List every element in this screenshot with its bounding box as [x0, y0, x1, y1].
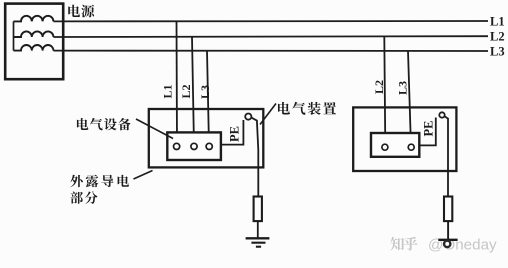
- PE wire from device 2 to terminal: [419, 118, 436, 146]
- terminal 3 (L3): [206, 143, 212, 149]
- wire drop L3 to device 2: [408, 51, 411, 147]
- wire bus L1: [53, 20, 488, 22]
- svg-text:L3: L3: [198, 85, 212, 99]
- label 部分 line 2: [70, 191, 83, 203]
- wire drop L2 to device 1: [192, 37, 194, 146]
- wire drop L1 to device 1: [176, 21, 179, 146]
- label 电气装置 (electrical installation): [278, 102, 290, 115]
- watermark 知乎: [390, 237, 404, 251]
- leader 外露导电部分: [134, 171, 153, 180]
- svg-text:PE: PE: [228, 126, 242, 142]
- terminal 2 (L2): [191, 143, 197, 149]
- svg-text:L2: L2: [372, 80, 386, 94]
- svg-text:L2: L2: [179, 84, 193, 98]
- svg-text:L1: L1: [490, 15, 505, 29]
- PE earthing conductor 1: [252, 118, 259, 197]
- leader 电气装置: [260, 104, 276, 125]
- terminal 2 (L3): [408, 144, 414, 150]
- electrical installation enclosure 1: [149, 109, 263, 167]
- svg-text:L3: L3: [396, 81, 410, 95]
- ground bar 2: [438, 239, 457, 241]
- PE terminal circle 2: [439, 112, 444, 117]
- PE terminal circle 1: [245, 114, 251, 120]
- device (电气设备) inner box 1: [167, 132, 221, 160]
- svg-text:PE: PE: [422, 121, 436, 137]
- terminal 1 (L2): [382, 144, 388, 150]
- earth resistance (electrode) 2: [444, 197, 452, 222]
- leader 电气设备: [136, 119, 173, 139]
- winding W2 (phase L2): [14, 31, 54, 37]
- PE earthing conductor 2: [445, 116, 449, 196]
- earth resistance (electrode) 1: [254, 197, 262, 222]
- wire bus L2: [53, 35, 488, 38]
- source box (power supply enclosure): [5, 4, 63, 80]
- label 电源 (power source): [68, 5, 80, 17]
- label 外露导电部分 (exposed conductive parts) line 1: [70, 175, 83, 187]
- wire bus L3: [53, 50, 488, 52]
- winding W1 (phase L1): [14, 16, 54, 22]
- terminal 1 (L1): [174, 143, 180, 149]
- wire drop L3 to device 1: [207, 51, 209, 146]
- wire electrode 2 to ground: [447, 221, 449, 240]
- electrical installation enclosure 2: [353, 107, 456, 171]
- svg-text:L2: L2: [490, 30, 505, 44]
- ground symbol 1: [246, 237, 270, 239]
- label 电气设备 (electrical equipment): [77, 118, 88, 130]
- device inner box 2: [371, 133, 419, 157]
- svg-text:L1: L1: [161, 84, 175, 98]
- svg-text:L3: L3: [490, 45, 505, 59]
- winding W3 (phase L3): [14, 45, 54, 51]
- ground symbol 2 lower ring: [444, 241, 450, 247]
- winding common bus (left vertical): [13, 21, 15, 50]
- PE wire from device 1 to terminal: [222, 120, 243, 145]
- wire drop L2 to device 2: [384, 36, 385, 147]
- wire electrode 1 to ground: [257, 221, 259, 238]
